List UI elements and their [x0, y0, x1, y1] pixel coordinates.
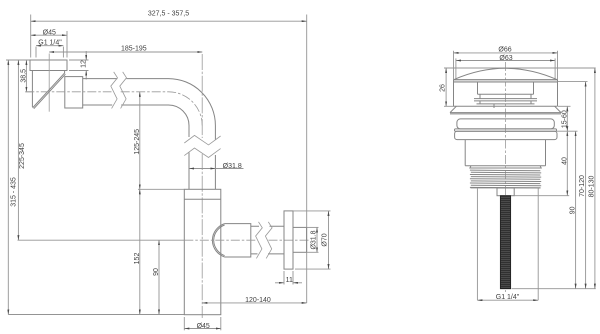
connector nut	[497, 188, 514, 196]
dim 152	[134, 189, 141, 314]
svg-text:Ø45: Ø45	[197, 323, 210, 330]
dim Ø66	[454, 47, 558, 80]
dim 15-60	[562, 106, 569, 131]
svg-text:Ø63: Ø63	[499, 55, 512, 62]
flare top extension	[558, 105, 571, 107]
wall flange	[284, 211, 293, 269]
inlet flange	[30, 60, 67, 71]
seat flare	[450, 106, 561, 114]
riser centerline	[201, 54, 203, 318]
svg-text:Ø31.8: Ø31.8	[311, 230, 318, 249]
dim 90 trap	[153, 240, 160, 314]
locknut ring 2	[455, 129, 557, 131]
svg-text:90: 90	[569, 206, 576, 214]
dim 80-130	[588, 68, 595, 289]
svg-text:125-245: 125-245	[134, 129, 141, 155]
locknut extension	[556, 130, 578, 132]
svg-text:11: 11	[286, 277, 293, 284]
svg-text:80-130: 80-130	[588, 175, 595, 197]
waste cap dome	[454, 68, 557, 79]
svg-text:225-345: 225-345	[19, 143, 26, 169]
svg-text:26: 26	[440, 84, 447, 92]
svg-text:Ø70: Ø70	[322, 233, 329, 246]
apex extension line	[444, 67, 596, 69]
rod bottom extension	[512, 288, 596, 290]
dim 26	[440, 68, 454, 106]
svg-text:185-195: 185-195	[121, 45, 147, 52]
valve centerline	[505, 62, 507, 292]
trap body	[138, 189, 221, 314]
svg-text:Ø31.8: Ø31.8	[223, 163, 242, 170]
pipe break vertical	[184, 135, 220, 157]
pipe centerline	[25, 92, 202, 126]
horizontal pipe	[83, 79, 216, 126]
wall stub	[293, 227, 307, 252]
dim 125-245	[134, 92, 141, 190]
dim 12 flange height	[69, 51, 89, 80]
svg-text:120-140: 120-140	[245, 297, 271, 304]
dim 185-195	[49, 45, 202, 52]
elbow socket	[65, 77, 83, 108]
dim 70-120	[579, 82, 586, 289]
rim extension	[558, 81, 588, 83]
dim 38,5	[20, 60, 32, 92]
pipe break horizontal	[111, 72, 127, 109]
dim 315-435	[6, 60, 184, 315]
cap skirt	[454, 80, 558, 107]
cap mechanism	[474, 82, 537, 108]
dim 225-345	[18, 60, 185, 240]
dim Ø45 trap	[184, 317, 221, 330]
threaded rod	[500, 196, 510, 289]
body thread	[470, 166, 541, 188]
dim Ø70	[293, 211, 331, 269]
thread extension lines	[477, 189, 538, 301]
svg-text:327,5 - 357,5: 327,5 - 357,5	[148, 10, 189, 17]
svg-text:70-120: 70-120	[579, 175, 586, 197]
connector extension	[514, 195, 569, 197]
dim 90 valve	[569, 131, 576, 289]
svg-text:Ø66: Ø66	[498, 47, 511, 54]
svg-text:G1 1/4": G1 1/4"	[496, 294, 520, 301]
locknut ring 1	[457, 119, 554, 129]
label G1 1/4 bottom	[477, 294, 538, 301]
elbow body	[32, 71, 64, 108]
svg-text:15-60: 15-60	[562, 110, 569, 128]
vertical pipe	[189, 126, 215, 190]
dim 11 wall flange	[275, 271, 302, 285]
outlet break	[256, 222, 273, 259]
dim Ø31,8 riser	[189, 163, 244, 170]
dim 40	[561, 131, 568, 195]
outlet pipe	[251, 226, 284, 254]
svg-text:152: 152	[134, 253, 141, 265]
dim Ø45 inlet	[31, 29, 67, 57]
svg-text:40: 40	[561, 157, 568, 165]
svg-text:G1 1/4": G1 1/4"	[38, 40, 62, 47]
svg-text:38,5: 38,5	[20, 69, 27, 83]
dim Ø63	[456, 55, 555, 79]
svg-text:315 - 435: 315 - 435	[11, 177, 18, 207]
inlet centerline	[48, 54, 50, 112]
dim total length 327,5-357,5	[31, 10, 307, 303]
dim 120-140	[202, 297, 306, 304]
svg-text:12: 12	[81, 60, 88, 68]
svg-text:Ø45: Ø45	[43, 29, 56, 36]
miter seam	[33, 73, 66, 109]
dim Ø31,8 outlet	[307, 227, 319, 252]
valve body	[465, 140, 545, 166]
outlet nut	[212, 224, 250, 257]
svg-text:90: 90	[153, 268, 160, 276]
locknut ring 3	[455, 131, 557, 139]
outlet centerline	[184, 239, 309, 241]
label G1 1/4 inlet thread	[36, 40, 63, 58]
cap rim	[454, 80, 558, 82]
